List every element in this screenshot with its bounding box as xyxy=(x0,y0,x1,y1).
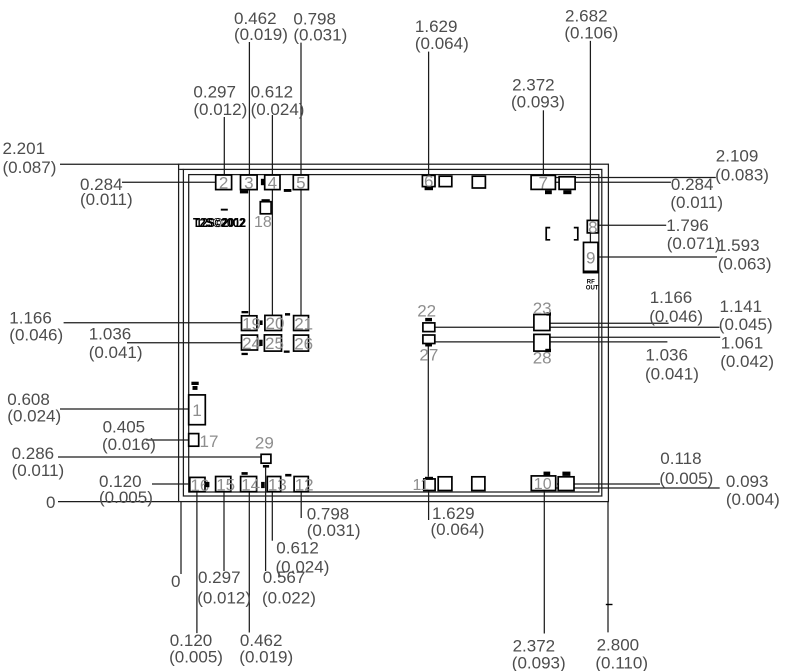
svg-text:24: 24 xyxy=(242,334,261,353)
svg-text:12: 12 xyxy=(295,475,314,494)
svg-text:(0.041): (0.041) xyxy=(645,364,699,383)
svg-text:15: 15 xyxy=(216,475,235,494)
svg-text:1.166: 1.166 xyxy=(650,288,693,307)
svg-text:(0.024): (0.024) xyxy=(7,406,61,425)
svg-text:4: 4 xyxy=(268,173,277,192)
svg-text:10: 10 xyxy=(534,476,552,493)
svg-text:(0.019): (0.019) xyxy=(234,25,288,44)
svg-text:2: 2 xyxy=(219,173,228,192)
svg-text:27: 27 xyxy=(419,346,438,365)
svg-text:(0.005): (0.005) xyxy=(99,488,153,507)
svg-text:(0.046): (0.046) xyxy=(9,325,63,344)
svg-text:1: 1 xyxy=(192,401,201,420)
svg-text:0.093: 0.093 xyxy=(726,472,769,491)
svg-text:(0.022): (0.022) xyxy=(262,588,316,607)
svg-text:(0.012): (0.012) xyxy=(197,588,251,607)
svg-text:1.796: 1.796 xyxy=(666,216,709,235)
svg-text:1.593: 1.593 xyxy=(717,236,760,255)
svg-text:11: 11 xyxy=(413,477,430,494)
svg-text:28: 28 xyxy=(533,348,552,367)
svg-text:20: 20 xyxy=(266,314,285,333)
svg-text:(0.011): (0.011) xyxy=(670,193,723,212)
svg-text:0.612: 0.612 xyxy=(276,538,319,557)
svg-text:RF: RF xyxy=(587,279,595,285)
svg-text:13: 13 xyxy=(268,475,287,494)
svg-text:(0.011): (0.011) xyxy=(12,461,65,480)
svg-text:0.286: 0.286 xyxy=(12,444,55,463)
svg-text:8: 8 xyxy=(588,218,597,237)
svg-text:1.141: 1.141 xyxy=(720,297,763,316)
svg-text:(0.011): (0.011) xyxy=(80,190,133,209)
svg-text:(0.093): (0.093) xyxy=(511,93,565,112)
svg-text:(0.005): (0.005) xyxy=(659,469,713,488)
svg-text:0: 0 xyxy=(46,493,55,512)
svg-text:2.201: 2.201 xyxy=(3,139,46,158)
svg-text:(0.005): (0.005) xyxy=(169,648,223,667)
svg-text:17: 17 xyxy=(200,432,219,451)
svg-text:(0.087): (0.087) xyxy=(3,158,57,177)
svg-text:18: 18 xyxy=(254,214,272,231)
svg-text:19: 19 xyxy=(242,314,261,333)
svg-text:5: 5 xyxy=(296,173,305,192)
svg-text:0.297: 0.297 xyxy=(193,83,236,102)
svg-text:(0.012): (0.012) xyxy=(193,100,247,119)
svg-text:0.405: 0.405 xyxy=(103,417,146,436)
svg-text:3: 3 xyxy=(244,173,253,192)
svg-text:21: 21 xyxy=(294,314,313,333)
svg-text:1.036: 1.036 xyxy=(645,346,688,365)
svg-text:(0.093): (0.093) xyxy=(512,654,566,671)
svg-text:0.567: 0.567 xyxy=(263,568,306,587)
svg-text:(0.071): (0.071) xyxy=(667,234,721,253)
svg-text:29: 29 xyxy=(255,434,274,453)
svg-text:2.109: 2.109 xyxy=(716,147,759,166)
svg-text:(0.024): (0.024) xyxy=(251,100,305,119)
svg-text:25: 25 xyxy=(265,334,284,353)
svg-text:0: 0 xyxy=(171,572,180,591)
svg-text:(0.042): (0.042) xyxy=(720,352,774,371)
svg-text:1.036: 1.036 xyxy=(89,325,132,344)
svg-text:(0.031): (0.031) xyxy=(307,521,361,540)
svg-text:12S©2012: 12S©2012 xyxy=(196,215,246,230)
svg-text:14: 14 xyxy=(241,475,260,494)
svg-text:(0.110): (0.110) xyxy=(595,654,648,671)
svg-text:1.061: 1.061 xyxy=(721,334,764,353)
svg-text:(0.063): (0.063) xyxy=(718,255,772,274)
svg-text:23: 23 xyxy=(533,299,552,318)
svg-text:(0.106): (0.106) xyxy=(564,23,618,42)
svg-text:7: 7 xyxy=(539,174,548,193)
svg-text:(0.064): (0.064) xyxy=(431,520,485,539)
svg-text:0.118: 0.118 xyxy=(660,449,701,468)
svg-text:(0.019): (0.019) xyxy=(239,648,293,667)
svg-text:26: 26 xyxy=(294,334,313,353)
svg-text:(0.083): (0.083) xyxy=(715,166,769,185)
svg-text:2.800: 2.800 xyxy=(597,636,640,655)
svg-text:(0.064): (0.064) xyxy=(415,34,469,53)
svg-text:0.297: 0.297 xyxy=(198,568,241,587)
svg-text:(0.046): (0.046) xyxy=(649,307,703,326)
svg-text:(0.045): (0.045) xyxy=(719,315,773,334)
svg-text:(0.041): (0.041) xyxy=(89,343,143,362)
svg-text:(0.016): (0.016) xyxy=(102,435,156,454)
svg-text:0.284: 0.284 xyxy=(671,175,714,194)
svg-text:0.612: 0.612 xyxy=(251,83,294,102)
svg-text:OUT: OUT xyxy=(586,286,599,292)
svg-text:22: 22 xyxy=(417,302,436,321)
svg-text:9: 9 xyxy=(586,249,595,268)
svg-text:(0.031): (0.031) xyxy=(293,26,347,45)
svg-text:(0.004): (0.004) xyxy=(726,490,780,509)
